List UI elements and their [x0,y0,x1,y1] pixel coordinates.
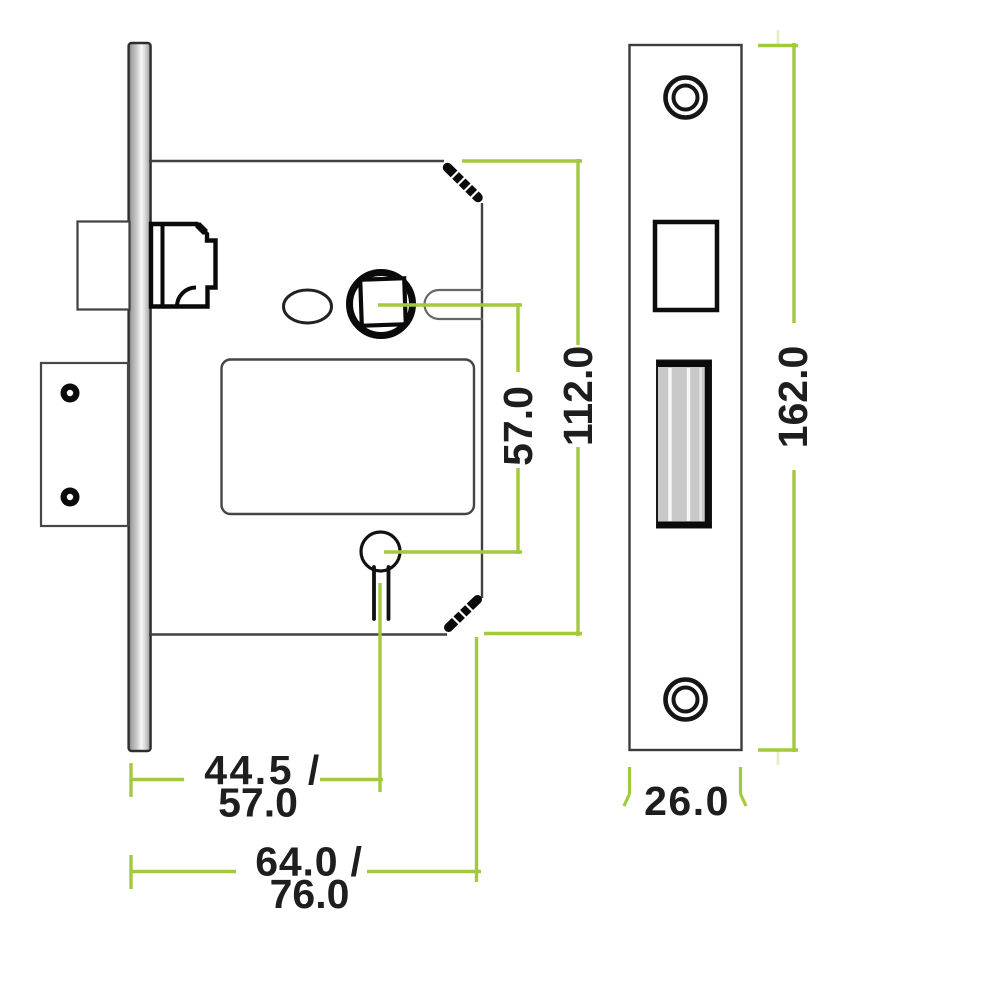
dim leader front plate top [758,44,798,47]
strike box screw bottom [61,488,80,507]
front plate deadbolt (hatched) [657,361,711,529]
dim tick 44.5 left [129,763,132,797]
dim line 112.0 vertical [576,159,579,636]
dim leader spindle centre [378,303,522,306]
dim line 44.5/57.0 horizontal [131,778,383,781]
svg-text:57.0: 57.0 [218,780,298,826]
dim leader front plate bottom [758,748,798,751]
dim line 162.0 vertical [792,43,795,752]
dim tick front plate top (faint) [777,30,780,45]
svg-text:26.0: 26.0 [644,778,730,824]
dim tick front plate bottom (faint) [777,750,780,765]
lock case outline (side view) [149,161,482,635]
spindle square follower [360,278,406,326]
svg-text:162.0: 162.0 [770,346,816,449]
front plate screw hole top [666,78,706,118]
dim tick 64.0 left [129,855,132,889]
dim arrow 26.0 right [741,767,747,806]
front plate screw hole bottom [666,680,706,720]
dim leader case top [462,159,582,162]
svg-text:112.0: 112.0 [555,346,601,446]
spindle hub ring [350,273,413,336]
dim leader case bottom [484,632,582,635]
case rear extension down [475,637,478,882]
strike box (left of plate) [41,363,128,526]
right edge slot [425,290,484,319]
keyhole stem [374,567,389,619]
strike box screw top [61,384,80,403]
front faceplate outline [630,45,742,750]
case bottom-right chamfer bar [449,600,478,628]
dim arrow 26.0 left [624,767,630,806]
case top-right chamfer bar [448,168,480,200]
small ellipse cutout [284,290,332,323]
svg-text:57.0: 57.0 [495,386,541,466]
faceplate (side view, edge-on bar) [129,43,151,751]
keyhole centre extension down [378,583,381,792]
front plate latch square opening [655,222,717,310]
latch tail inner vertical line [161,224,165,306]
dim line 57.0 vertical [516,303,519,554]
svg-text:76.0: 76.0 [270,871,350,917]
dim leader keyhole centre [384,550,522,553]
latch bolt head (left of plate) [78,222,130,310]
keyhole circle [361,532,400,571]
lock body rounded rectangle (lever pack) [222,360,475,515]
dim line 64.0/76.0 horizontal [131,870,481,873]
latch bolt tail (inside case) [151,224,216,307]
latch tail radius arc [177,288,196,307]
